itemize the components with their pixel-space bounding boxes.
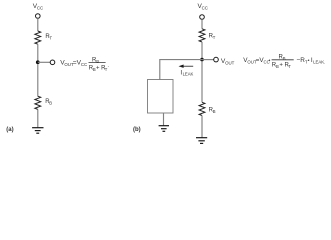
wire node to left branch (right) — [160, 60, 202, 80]
svg-text:•: • — [308, 58, 310, 64]
wire node to RB (right) — [201, 61, 203, 102]
node VOUT label (right) — [221, 58, 235, 66]
node junction dot (left) — [36, 60, 40, 64]
svg-text:CC: CC — [37, 6, 43, 11]
wire node to VOUT terminal (left) — [38, 61, 51, 63]
resistor RB (left) — [35, 96, 41, 109]
svg-text:(b): (b) — [133, 127, 141, 133]
label RB (left) — [45, 99, 52, 106]
wire node to VOUT terminal (right) — [202, 59, 214, 61]
value label formula a: VOUT=VCC RB/(RB+RT) — [60, 57, 109, 72]
svg-text:T: T — [288, 64, 291, 69]
value label formula b: VOUT=VCC RB/(RB+RT) - RT ILEAK — [243, 55, 325, 70]
ground (box) — [159, 126, 169, 132]
svg-text:B: B — [213, 109, 216, 114]
VOUT terminal circle (right) — [214, 57, 219, 62]
current arrow ILEAK — [179, 65, 194, 68]
leakage source box — [148, 80, 174, 114]
svg-text:B: B — [96, 59, 99, 64]
svg-text:T: T — [50, 35, 53, 40]
wire node to RB (left) — [37, 64, 39, 96]
VCC terminal circle (left) — [36, 14, 41, 19]
wire RT to node (right) — [201, 42, 203, 60]
label RT (right) — [209, 34, 216, 41]
VCC terminal circle (right) — [200, 15, 205, 20]
svg-text:−R: −R — [297, 57, 306, 64]
resistor RT (right) — [199, 29, 205, 42]
wire RB to ground (right) — [201, 116, 203, 138]
label RB (right) — [209, 108, 216, 115]
resistor RB (right) — [199, 102, 205, 115]
label ILEAK — [180, 69, 193, 76]
wire RT to node (left) — [37, 44, 39, 62]
wire VCC to RT (right) — [201, 19, 203, 29]
node junction dot (right) — [200, 58, 204, 62]
svg-text:CC: CC — [202, 6, 208, 11]
node VCC label (right) — [198, 3, 208, 11]
svg-text:B: B — [283, 56, 286, 61]
ground (right) — [196, 138, 207, 144]
svg-text:T: T — [213, 35, 216, 40]
svg-text:B: B — [49, 101, 52, 106]
svg-text:•: • — [269, 58, 271, 64]
svg-text:.: . — [108, 63, 109, 69]
wire box to ground — [163, 113, 165, 126]
wire RB to ground (left) — [37, 109, 39, 127]
svg-text:LEAK.: LEAK. — [313, 60, 325, 65]
node VCC label (left) — [33, 3, 43, 11]
svg-text:OUT: OUT — [225, 60, 235, 65]
svg-text:CC: CC — [81, 62, 87, 67]
resistor RT (left) — [35, 31, 41, 44]
ground (left) — [32, 128, 43, 134]
wire VCC to RT (left) — [37, 18, 39, 31]
label RT (left) — [45, 34, 52, 41]
svg-text:LEAK: LEAK — [183, 72, 194, 77]
svg-text:(a): (a) — [6, 127, 13, 133]
VOUT terminal circle (left) — [50, 60, 55, 65]
